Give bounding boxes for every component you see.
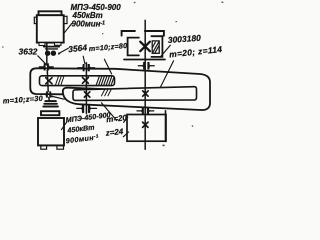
svg-text:3632: 3632 (19, 46, 38, 56)
svg-text:3564: 3564 (68, 42, 88, 54)
svg-text:900мин-1: 900мин-1 (72, 20, 106, 29)
